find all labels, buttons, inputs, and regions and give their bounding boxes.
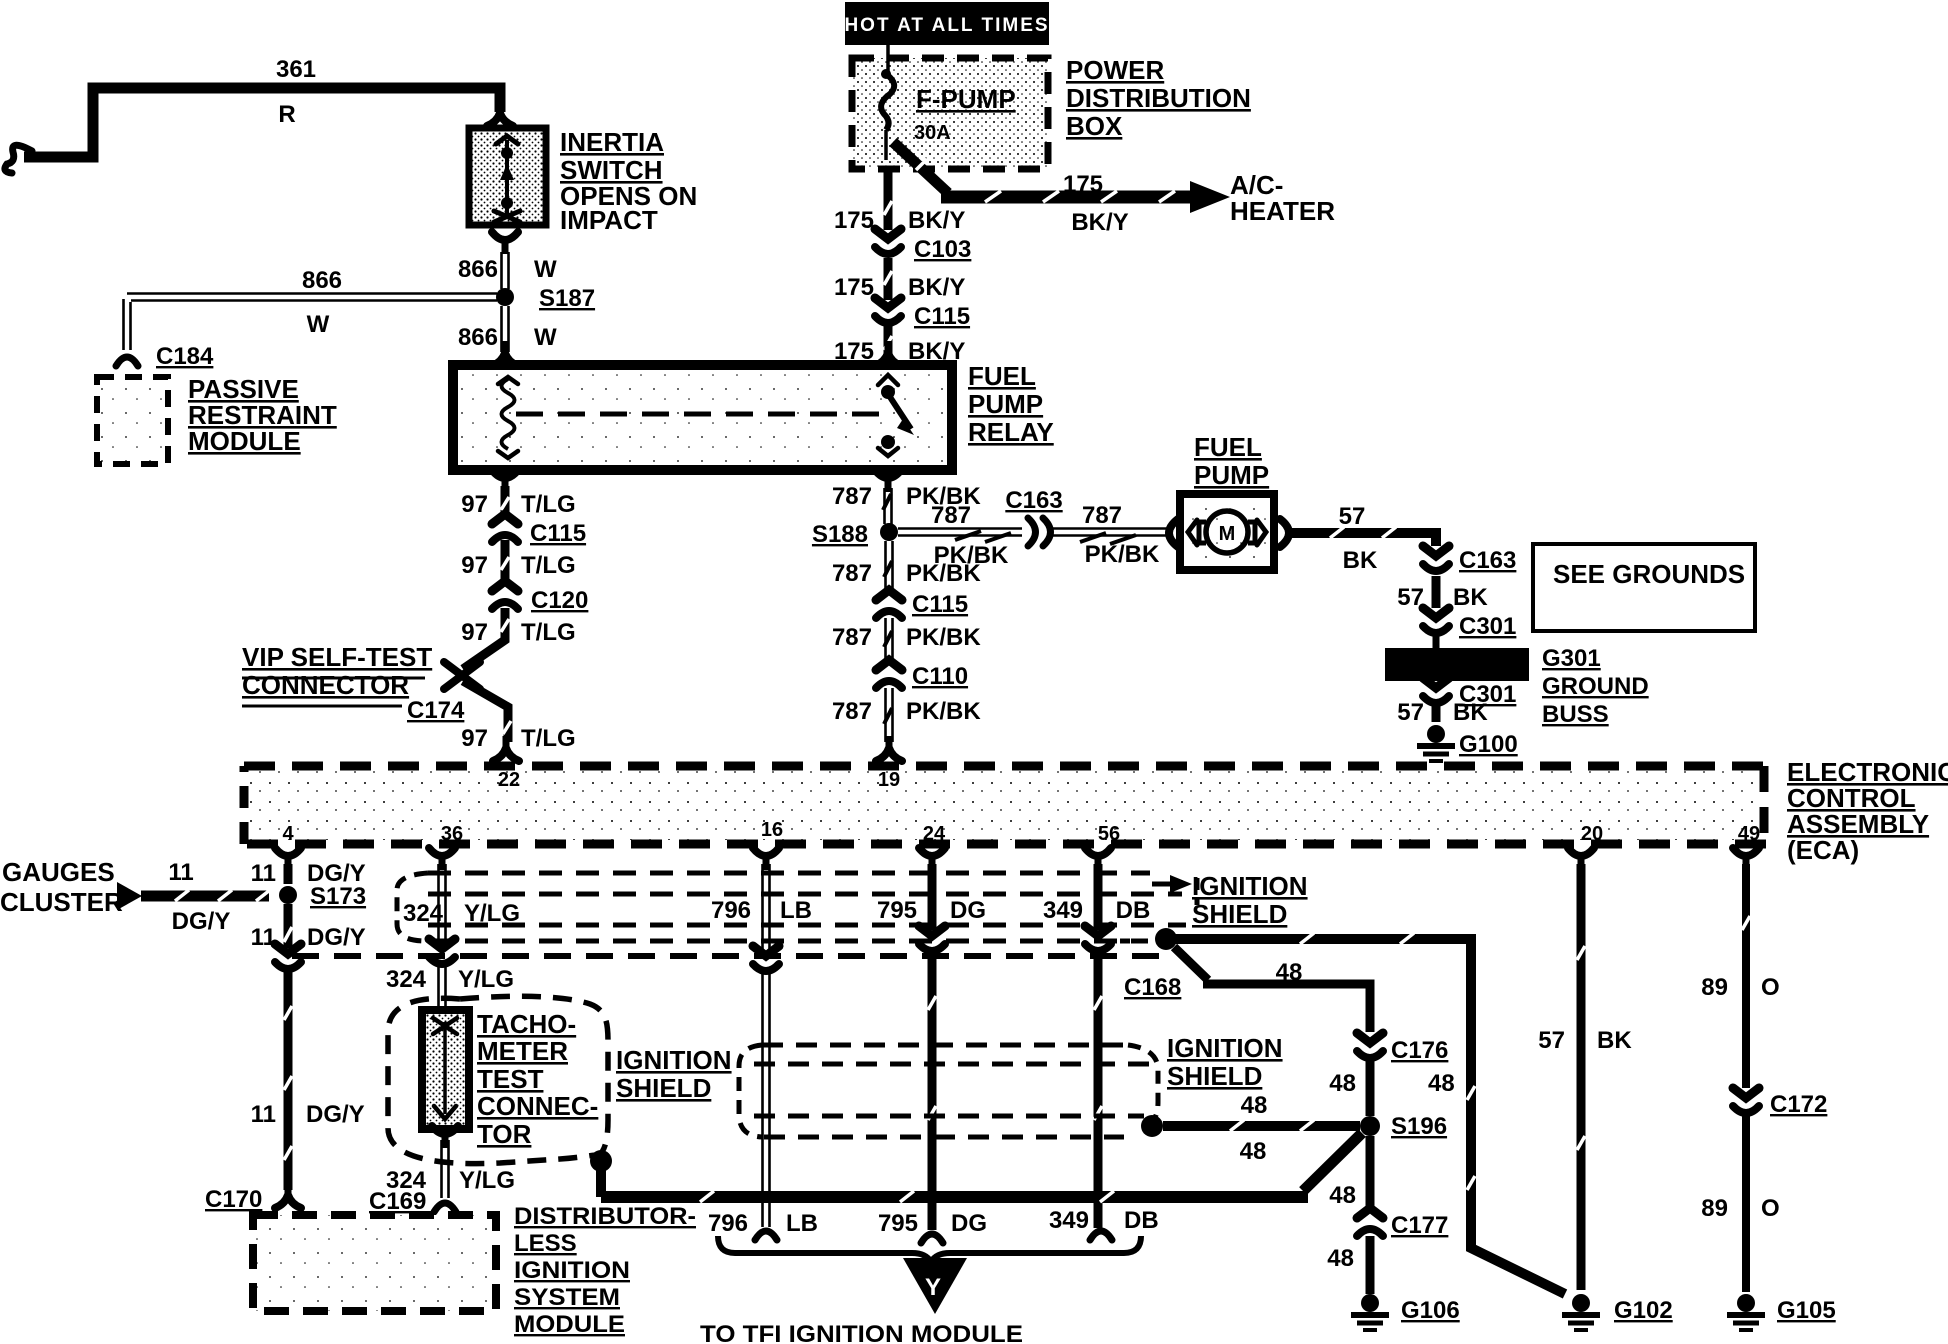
svg-text:C174: C174 <box>407 697 465 724</box>
svg-text:56: 56 <box>1098 823 1120 845</box>
connector C115 fuel line <box>876 590 902 618</box>
svg-text:349: 349 <box>1049 1207 1089 1234</box>
connector at inertia switch top <box>487 101 513 126</box>
connector C301 lower <box>1423 678 1449 703</box>
svg-text:BK/Y: BK/Y <box>908 274 965 301</box>
wire 324 Y/LG pin 36 through shield <box>439 864 446 945</box>
svg-text:IGNITION: IGNITION <box>1167 1033 1283 1063</box>
connector C115 lower <box>492 514 518 542</box>
svg-text:CONNECTOR: CONNECTOR <box>242 670 409 700</box>
svg-text:349: 349 <box>1043 897 1083 924</box>
connector on wire 324 at shield <box>429 939 455 964</box>
connector C176 <box>1357 1033 1383 1058</box>
svg-text:787: 787 <box>832 624 872 651</box>
svg-text:866: 866 <box>302 267 342 294</box>
passive restraint module box <box>97 377 168 464</box>
svg-text:48: 48 <box>1428 1070 1455 1097</box>
svg-text:SHIELD: SHIELD <box>1167 1061 1262 1091</box>
svg-text:795: 795 <box>878 1210 918 1237</box>
connector C172 <box>1733 1088 1759 1113</box>
connector C163 ground side <box>1423 546 1449 571</box>
svg-text:11: 11 <box>251 1101 276 1128</box>
connector at pump left <box>1169 519 1178 547</box>
wire 787 PK/BK relay to S188 <box>885 488 892 524</box>
connector at relay pin top right <box>875 341 901 366</box>
svg-text:97: 97 <box>461 725 488 752</box>
connector at ECA pin 19 <box>876 736 902 761</box>
svg-text:C168: C168 <box>1124 974 1181 1001</box>
svg-text:S188: S188 <box>812 521 868 548</box>
svg-text:C115: C115 <box>912 591 968 618</box>
wire 866 W S187 to C184 <box>124 294 498 351</box>
svg-text:57: 57 <box>1397 699 1424 726</box>
svg-text:22: 22 <box>498 769 520 791</box>
wire 57 BK to C301 <box>1432 576 1441 608</box>
tachometer test connector shield blob <box>388 996 608 1163</box>
wire 11 DG/Y to C170 <box>284 966 293 1190</box>
svg-text:TOR: TOR <box>477 1119 532 1149</box>
svg-text:FUEL: FUEL <box>1194 432 1262 462</box>
svg-text:796: 796 <box>711 897 751 924</box>
wire 11 DG/Y S173 down <box>284 904 293 948</box>
svg-text:PK/BK: PK/BK <box>1085 541 1160 568</box>
svg-text:PUMP: PUMP <box>1194 460 1269 490</box>
svg-text:HOT AT ALL TIMES: HOT AT ALL TIMES <box>844 15 1049 36</box>
wire 48 lower shield drain to S196 <box>1163 1121 1360 1131</box>
svg-text:Y: Y <box>925 1274 941 1301</box>
svg-text:PK/BK: PK/BK <box>906 560 981 587</box>
svg-text:G100: G100 <box>1459 731 1518 758</box>
brace grouping wires to TFI module <box>718 1236 1141 1262</box>
svg-text:C177: C177 <box>1391 1212 1448 1239</box>
svg-text:787: 787 <box>832 698 872 725</box>
svg-text:324: 324 <box>403 900 444 927</box>
wire 787 PK/BK S188 to C163 <box>898 529 1022 536</box>
hook terminal left end of wire 361 <box>5 145 32 173</box>
connector C103 <box>875 229 901 254</box>
svg-text:LESS: LESS <box>514 1230 577 1257</box>
svg-text:48: 48 <box>1329 1070 1356 1097</box>
svg-text:48: 48 <box>1276 959 1303 986</box>
svg-text:787: 787 <box>931 502 971 529</box>
svg-text:IGNITION: IGNITION <box>616 1045 732 1075</box>
svg-text:O: O <box>1761 1195 1780 1222</box>
svg-text:11: 11 <box>251 860 276 887</box>
svg-text:HEATER: HEATER <box>1230 196 1335 226</box>
svg-text:30A: 30A <box>914 122 951 144</box>
wire 175 BK/Y vertical <box>884 169 893 362</box>
svg-text:MODULE: MODULE <box>188 426 301 456</box>
wire 787 PK/BK C163 to fuel pump <box>1052 529 1168 536</box>
svg-text:C103: C103 <box>914 236 971 263</box>
wire 97 T/LG relay to ECA pin 22 <box>463 486 508 742</box>
connector at ECA pin 4 <box>275 848 301 870</box>
wire 866 W S187 to fuel pump relay <box>502 306 509 352</box>
splice S173 <box>279 886 297 904</box>
gauges cluster arrow <box>117 882 142 910</box>
svg-text:GROUND: GROUND <box>1542 673 1649 700</box>
wire 48 shield drain to C176 via C168 <box>1174 947 1370 1032</box>
svg-text:BK: BK <box>1343 547 1378 574</box>
svg-text:97: 97 <box>461 552 488 579</box>
svg-text:W: W <box>534 256 557 283</box>
svg-text:C184: C184 <box>156 343 214 370</box>
wire 11 DG/Y gauges cluster to S173 <box>141 891 269 902</box>
svg-text:T/LG: T/LG <box>521 552 576 579</box>
relay coil <box>498 377 518 384</box>
svg-text:C176: C176 <box>1391 1037 1448 1064</box>
svg-text:DISTRIBUTION: DISTRIBUTION <box>1066 83 1251 113</box>
svg-text:T/LG: T/LG <box>521 725 576 752</box>
svg-text:LB: LB <box>786 1210 818 1237</box>
svg-text:BK/Y: BK/Y <box>1071 209 1128 236</box>
svg-text:20: 20 <box>1581 823 1603 845</box>
connector at ECA pin 16 <box>753 848 779 870</box>
svg-text:DG: DG <box>950 897 986 924</box>
svg-text:787: 787 <box>1082 502 1122 529</box>
svg-text:796: 796 <box>708 1210 748 1237</box>
connector below relay left pin <box>492 470 518 492</box>
svg-text:C120: C120 <box>531 587 588 614</box>
connector C115 <box>875 298 901 323</box>
svg-text:BK/Y: BK/Y <box>908 207 965 234</box>
lower shield drain dot <box>1141 1115 1163 1137</box>
svg-text:36: 36 <box>441 823 463 845</box>
svg-text:CLUSTER: CLUSTER <box>0 887 123 917</box>
svg-text:4: 4 <box>282 823 294 845</box>
lower shield left bracket <box>739 1045 762 1137</box>
ground G100 <box>1417 725 1455 761</box>
connector C177 <box>1357 1208 1383 1236</box>
wire 796 LB pin 16 down <box>763 864 770 1227</box>
connector C301 upper <box>1423 608 1449 633</box>
shield drain dot <box>1155 928 1177 950</box>
wire 795 DG pin 24 down <box>928 864 937 1230</box>
wire 48 S196 to tachometer shield drain <box>1303 1133 1362 1191</box>
svg-text:11: 11 <box>168 859 193 886</box>
svg-text:METER: METER <box>477 1036 568 1066</box>
wire 175 BK/Y to A/C heater <box>893 142 948 193</box>
svg-text:175: 175 <box>834 207 874 234</box>
svg-text:M: M <box>1219 523 1236 545</box>
svg-text:BK: BK <box>1453 699 1488 726</box>
wire 324 Y/LG below tachometer connector <box>432 1126 458 1148</box>
wire 48 C176 to S196 <box>1366 1060 1375 1116</box>
svg-text:GAUGES: GAUGES <box>2 857 115 887</box>
connector at relay pin top left <box>492 341 518 366</box>
svg-text:INERTIA: INERTIA <box>560 127 664 157</box>
svg-text:POWER: POWER <box>1066 55 1164 85</box>
svg-text:PUMP: PUMP <box>968 389 1043 419</box>
connector at ECA pin 24 <box>919 848 945 870</box>
wire 48 C177 to G106 <box>1366 1236 1375 1294</box>
connector on wire 11 at shield line <box>275 944 301 969</box>
svg-text:LB: LB <box>780 897 812 924</box>
svg-text:866: 866 <box>458 324 498 351</box>
svg-text:DG: DG <box>951 1210 987 1237</box>
svg-text:DISTRIBUTOR-: DISTRIBUTOR- <box>514 1203 696 1230</box>
tachometer test connector body <box>422 1010 469 1129</box>
svg-text:BK: BK <box>1597 1027 1632 1054</box>
svg-text:O: O <box>1761 974 1780 1001</box>
fuel pump motor M <box>1206 511 1248 553</box>
connector at ECA pin 56 <box>1085 848 1111 870</box>
svg-text:C172: C172 <box>1770 1091 1827 1118</box>
svg-text:175: 175 <box>834 274 874 301</box>
svg-text:DB: DB <box>1124 1207 1159 1234</box>
electronic control assembly ECA box <box>249 770 1761 840</box>
svg-text:89: 89 <box>1701 1195 1728 1222</box>
ground G106 <box>1351 1294 1389 1330</box>
svg-text:57: 57 <box>1538 1027 1565 1054</box>
svg-text:IGNITION: IGNITION <box>1192 871 1308 901</box>
svg-text:16: 16 <box>761 819 783 841</box>
svg-text:FUEL: FUEL <box>968 361 1036 391</box>
shield bundle dashed lines upper <box>428 873 1186 941</box>
wire 787 PK/BK S188 to C115 <box>886 541 893 590</box>
svg-text:S196: S196 <box>1391 1113 1447 1140</box>
fuel pump relay box <box>453 365 952 470</box>
lower shield bundle dashed lines <box>754 1045 1150 1137</box>
connector below inertia switch <box>492 232 518 254</box>
svg-text:175: 175 <box>1063 171 1103 198</box>
svg-text:787: 787 <box>832 560 872 587</box>
relay switch <box>878 375 898 385</box>
wire 787 PK/BK to C110 <box>886 618 893 660</box>
relay internal dashed link <box>516 412 890 417</box>
svg-text:C163: C163 <box>1005 487 1062 514</box>
svg-text:C163: C163 <box>1459 547 1516 574</box>
shield left bracket <box>397 873 428 941</box>
svg-text:49: 49 <box>1738 823 1760 845</box>
svg-text:R: R <box>278 101 295 128</box>
svg-text:DG/Y: DG/Y <box>307 924 366 951</box>
svg-text:89: 89 <box>1701 974 1728 1001</box>
svg-text:DB: DB <box>1116 897 1151 924</box>
svg-text:C115: C115 <box>914 303 970 330</box>
wire 787 PK/BK to ECA pin 19 <box>886 688 893 742</box>
svg-text:VIP SELF-TEST: VIP SELF-TEST <box>242 642 432 672</box>
svg-text:48: 48 <box>1327 1245 1354 1272</box>
connector on wire 796 at shield <box>753 946 779 971</box>
connector at ECA pin 20 <box>1568 848 1594 870</box>
splice S188 <box>880 523 898 541</box>
lower shield right end <box>1128 1045 1158 1124</box>
svg-text:(ECA): (ECA) <box>1787 835 1859 865</box>
wire 89 O C172 to G105 <box>1742 1116 1750 1292</box>
wire 48 S196 to C177 <box>1366 1136 1375 1208</box>
svg-text:TACHO-: TACHO- <box>477 1009 576 1039</box>
svg-text:SEE GROUNDS: SEE GROUNDS <box>1553 559 1745 589</box>
svg-text:C115: C115 <box>530 520 586 547</box>
svg-text:24: 24 <box>923 823 946 845</box>
svg-text:Y/LG: Y/LG <box>464 900 520 927</box>
wire 866 W inertia switch to S187 <box>502 252 509 289</box>
wire 324 Y/LG into tachometer connector <box>439 961 446 1008</box>
HOT AT ALL TIMES banner <box>845 2 1049 45</box>
svg-text:Y/LG: Y/LG <box>458 966 514 993</box>
wire 57 BK to G100 <box>1432 700 1441 722</box>
svg-text:MODULE: MODULE <box>514 1311 625 1338</box>
svg-text:W: W <box>534 324 557 351</box>
inertia switch box <box>469 128 546 225</box>
connector C184 <box>116 357 138 366</box>
svg-text:BK: BK <box>1453 584 1488 611</box>
connector C170 <box>275 1183 301 1208</box>
svg-text:PK/BK: PK/BK <box>906 698 981 725</box>
svg-text:SHIELD: SHIELD <box>1192 899 1287 929</box>
svg-text:BOX: BOX <box>1066 111 1123 141</box>
svg-text:S187: S187 <box>539 285 595 312</box>
G301 ground buss <box>1433 634 1440 648</box>
distributorless ignition system module box <box>253 1215 496 1311</box>
tachometer shield drain dot <box>590 1150 612 1172</box>
svg-text:IMPACT: IMPACT <box>560 205 658 235</box>
svg-text:C110: C110 <box>912 663 968 690</box>
fuel pump box <box>1180 494 1274 570</box>
splice S187 <box>496 288 514 306</box>
svg-text:Y/LG: Y/LG <box>459 1167 515 1194</box>
svg-text:DG/Y: DG/Y <box>306 1101 365 1128</box>
VIP self-test connector symbol C174 <box>444 662 480 689</box>
shield arrow to label <box>1152 882 1172 887</box>
wire 349 DB pin 56 down <box>1094 864 1103 1228</box>
svg-text:866: 866 <box>458 256 498 283</box>
ground G105 <box>1727 1294 1765 1330</box>
connector at ECA pin 49 <box>1733 848 1759 870</box>
svg-text:G105: G105 <box>1777 1297 1836 1324</box>
fuse F-PUMP 30A <box>886 45 890 72</box>
svg-text:F-PUMP: F-PUMP <box>916 84 1016 114</box>
svg-text:361: 361 <box>276 56 316 83</box>
svg-text:RELAY: RELAY <box>968 417 1054 447</box>
wire 89 O pin 49 to C172 <box>1742 864 1750 1088</box>
svg-text:CONNEC-: CONNEC- <box>477 1091 598 1121</box>
arrow Y to TFI ignition module <box>903 1258 967 1314</box>
wire 57 BK pump to C163 <box>1292 533 1436 546</box>
svg-text:G106: G106 <box>1401 1297 1460 1324</box>
splice S196 <box>1360 1116 1380 1136</box>
svg-text:S173: S173 <box>310 883 366 910</box>
connector C120 <box>492 581 518 609</box>
svg-text:97: 97 <box>461 491 488 518</box>
svg-text:48: 48 <box>1329 1182 1356 1209</box>
svg-text:DG/Y: DG/Y <box>172 908 231 935</box>
svg-text:C169: C169 <box>369 1188 426 1215</box>
inertia switch contacts <box>505 140 509 218</box>
svg-text:C301: C301 <box>1459 613 1516 640</box>
svg-text:SYSTEM: SYSTEM <box>514 1284 620 1311</box>
svg-text:G301: G301 <box>1542 645 1601 672</box>
wire 57 BK pin 20 to G102 <box>1577 864 1586 1290</box>
connector at ECA pin 36 <box>429 848 455 870</box>
svg-text:SHIELD: SHIELD <box>616 1073 711 1103</box>
svg-text:48: 48 <box>1241 1092 1268 1119</box>
connector at pump right <box>1280 519 1289 547</box>
see grounds note box <box>1533 544 1755 631</box>
power distribution box <box>852 58 1048 169</box>
connector at ECA pin 22 <box>493 736 519 761</box>
svg-text:57: 57 <box>1339 503 1366 530</box>
svg-text:TO TFI IGNITION MODULE: TO TFI IGNITION MODULE <box>700 1321 1023 1344</box>
svg-text:795: 795 <box>877 897 917 924</box>
svg-text:BUSS: BUSS <box>1542 701 1609 728</box>
svg-text:787: 787 <box>832 483 872 510</box>
svg-text:97: 97 <box>461 619 488 646</box>
svg-text:19: 19 <box>878 769 900 791</box>
wire 48 shield drain to G102 <box>1175 939 1565 1294</box>
svg-text:C170: C170 <box>205 1186 262 1213</box>
connector C163 inline <box>1028 518 1051 546</box>
wire 361 R from fuse link to inertia switch <box>24 88 500 157</box>
svg-text:48: 48 <box>1240 1138 1267 1165</box>
connector C110 <box>876 660 902 688</box>
svg-text:G102: G102 <box>1614 1297 1673 1324</box>
svg-text:T/LG: T/LG <box>521 491 576 518</box>
ground G102 <box>1562 1294 1600 1330</box>
arrowhead to A/C heater <box>1190 181 1230 213</box>
svg-text:W: W <box>307 311 330 338</box>
svg-text:T/LG: T/LG <box>521 619 576 646</box>
svg-text:TEST: TEST <box>477 1064 544 1094</box>
connector below relay right pin <box>875 470 901 492</box>
connector on wire 795 at shield <box>919 926 945 951</box>
svg-text:324: 324 <box>386 966 427 993</box>
svg-text:IGNITION: IGNITION <box>514 1257 630 1284</box>
connector on wire 349 at shield <box>1085 926 1111 951</box>
svg-text:PK/BK: PK/BK <box>906 624 981 651</box>
